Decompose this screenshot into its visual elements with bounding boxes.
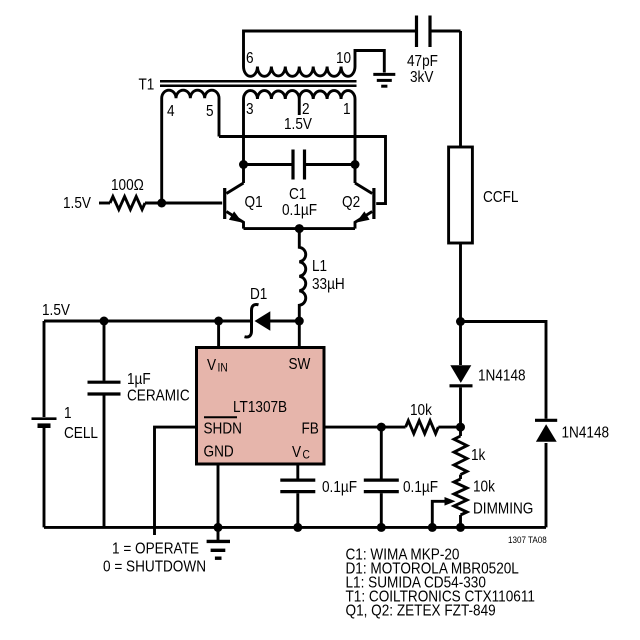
svg-text:CCFL: CCFL (483, 189, 518, 206)
svg-text:10k: 10k (473, 479, 495, 496)
svg-text:Q2: Q2 (342, 194, 360, 211)
capacitor C1 (244, 163, 294, 166)
diode 1N4148 (right) (535, 419, 557, 422)
node (feedback divider) (456, 423, 465, 432)
node (pot bottom on rail) (456, 523, 465, 532)
svg-text:4: 4 (167, 103, 175, 120)
svg-text:0.1µF: 0.1µF (322, 479, 357, 496)
svg-text:47pF: 47pF (407, 53, 438, 70)
node (FB cap) (377, 423, 386, 432)
svg-text:0 = SHUTDOWN: 0 = SHUTDOWN (103, 559, 206, 576)
svg-text:1k: 1k (471, 447, 486, 464)
ground (GND pin) (207, 541, 230, 558)
svg-text:3kV: 3kV (410, 69, 434, 86)
svg-text:SHDN: SHDN (204, 421, 242, 438)
svg-text:C1: C1 (289, 186, 306, 203)
transistor Q1 (223, 188, 226, 219)
node (VC cap on rail) (293, 523, 302, 532)
wiper wire (432, 501, 445, 527)
diode 1N4148 (top) (450, 365, 471, 383)
svg-text:33µH: 33µH (312, 276, 345, 293)
inductor L1 (299, 229, 305, 321)
wire top (pin 6 to 47pF) (244, 31, 416, 67)
svg-text:6: 6 (246, 50, 254, 67)
resistor 10k (FB) (406, 421, 439, 434)
svg-text:V: V (207, 357, 216, 374)
svg-text:D1: D1 (250, 286, 267, 303)
svg-text:1.5V: 1.5V (63, 195, 91, 212)
svg-text:0.1µF: 0.1µF (403, 479, 438, 496)
resistor 100ohm (110, 197, 145, 210)
svg-text:1N4148: 1N4148 (478, 368, 526, 385)
node (emitter rail / L1) (295, 224, 304, 233)
wire Q2 collector to winding pin 1 (354, 99, 357, 183)
transformer T1 secondary winding (pins 3-2-1) (244, 91, 356, 99)
svg-text:10: 10 (336, 50, 351, 67)
wire SW pin (298, 321, 301, 347)
wire pin 5 to Q2 base (219, 137, 386, 204)
svg-text:1 = OPERATE: 1 = OPERATE (112, 541, 199, 558)
svg-text:100Ω: 100Ω (111, 177, 144, 194)
svg-text:Q1, Q2: ZETEX FZT-849: Q1, Q2: ZETEX FZT-849 (346, 603, 496, 620)
svg-text:1: 1 (64, 405, 72, 422)
svg-text:1.5V: 1.5V (42, 302, 70, 319)
transistor Q2 (372, 188, 375, 219)
wire bottom rail (44, 526, 546, 529)
wire CCFL node to right branch (461, 322, 547, 419)
capacitor 47pF 3kV (417, 16, 431, 48)
svg-text:0.1µF: 0.1µF (282, 202, 317, 219)
svg-text:1N4148: 1N4148 (562, 425, 610, 442)
svg-text:3: 3 (246, 101, 254, 118)
svg-text:L1: L1 (312, 258, 327, 275)
svg-text:1: 1 (343, 101, 351, 118)
potentiometer 10k DIMMING (454, 479, 467, 515)
svg-text:C: C (303, 449, 310, 462)
center tap pin 2 stub (298, 99, 301, 115)
svg-text:T1: T1 (139, 77, 155, 94)
wire CCFL bottom (459, 243, 462, 322)
wire 1.5V rail (44, 320, 253, 323)
svg-text:5: 5 (206, 103, 214, 120)
wire CCFL node to 1N4148 (459, 322, 462, 366)
ground (T1 pin 10) (373, 74, 395, 86)
node (wiper on rail) (428, 523, 437, 532)
svg-text:Q1: Q1 (245, 194, 263, 211)
capacitor 0.1uF (FB) (380, 427, 383, 478)
svg-text:1307 TA08: 1307 TA08 (508, 534, 547, 545)
T1 core (160, 81, 357, 86)
wire VC pin to cap (296, 464, 299, 479)
svg-text:SW: SW (289, 356, 311, 373)
svg-text:V: V (292, 444, 301, 461)
node (CCFL bottom) (456, 317, 465, 326)
wire emitter rail (244, 227, 356, 230)
battery 1 CELL (43, 321, 46, 417)
node (GND on rail) (214, 523, 223, 532)
diode D1 (Schottky MBR0520L) (255, 311, 271, 331)
svg-text:1µF: 1µF (127, 371, 151, 388)
svg-text:1.5V: 1.5V (284, 116, 312, 133)
wire VIN pin (217, 321, 220, 347)
node (VIN) (214, 317, 223, 326)
svg-text:DIMMING: DIMMING (473, 501, 533, 518)
node (SW/L1) (295, 317, 304, 326)
wire 47pF to CCFL (459, 31, 462, 147)
node (Q1 collector / C1) (239, 160, 248, 169)
wire 100ohm to Q1 base (145, 202, 222, 205)
capacitor 0.1uF (VC) (280, 480, 315, 492)
svg-text:LT1307B: LT1307B (233, 399, 287, 416)
node (1uF) (100, 317, 109, 326)
svg-text:GND: GND (204, 444, 234, 461)
wire FB pin (324, 426, 406, 429)
transformer T1 primary winding (pins 6-10) (244, 67, 356, 77)
wire SHDN pin (155, 427, 197, 535)
node (FB cap on rail) (377, 523, 386, 532)
node (base drive) (157, 199, 166, 208)
wire 1.5V to 100ohm (99, 202, 110, 205)
wire Q1 collector to winding pin 3 (242, 99, 245, 183)
svg-text:10k: 10k (410, 402, 432, 419)
wire 10k to node (438, 426, 460, 429)
IC U1 LT1307B (197, 348, 325, 465)
svg-text:CERAMIC: CERAMIC (127, 388, 190, 405)
CCFL tube (449, 147, 473, 243)
svg-text:IN: IN (218, 362, 228, 375)
wire GND pin (217, 464, 220, 541)
resistor 1k (454, 436, 467, 475)
wire pin 10 to ground (355, 51, 384, 73)
svg-text:FB: FB (302, 421, 319, 438)
transformer T1 feedback winding (pins 4-5) (162, 90, 219, 203)
capacitor 1uF ceramic (103, 321, 106, 381)
svg-text:CELL: CELL (64, 425, 98, 442)
node (Q2 collector / C1) (351, 160, 360, 169)
